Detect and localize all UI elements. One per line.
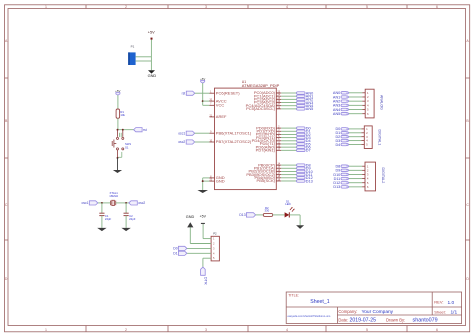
svg-text:LED: LED <box>285 202 290 206</box>
svg-text:P2: P2 <box>213 231 217 235</box>
svg-text:PD7(AIN1): PD7(AIN1) <box>256 148 276 153</box>
svg-text:VCC: VCC <box>216 103 225 108</box>
svg-text:D13: D13 <box>239 213 245 217</box>
svg-text:DIGITAL2: DIGITAL2 <box>381 168 385 184</box>
svg-text:AREF: AREF <box>216 114 227 119</box>
svg-text:AN5: AN5 <box>306 107 313 111</box>
svg-text:REV:: REV: <box>434 300 443 305</box>
svg-text:PC5(ADC5SCL): PC5(ADC5SCL) <box>246 106 276 111</box>
svg-text:2019-07-25: 2019-07-25 <box>350 318 377 324</box>
svg-text:DIGITAL1: DIGITAL1 <box>378 130 382 146</box>
svg-text:330: 330 <box>265 209 270 213</box>
svg-text:1/1: 1/1 <box>451 310 458 316</box>
svg-text:2: 2 <box>125 328 127 332</box>
svg-text:osc1: osc1 <box>178 131 185 135</box>
svg-text:P1: P1 <box>131 45 135 49</box>
svg-text:GND: GND <box>216 178 225 183</box>
svg-text:S1: S1 <box>125 146 129 150</box>
svg-text:D7: D7 <box>306 149 311 153</box>
svg-text:5: 5 <box>366 328 368 332</box>
svg-text:D1: D1 <box>173 252 177 256</box>
svg-text:PB6(XTAL1TOSC1): PB6(XTAL1TOSC1) <box>216 130 252 135</box>
svg-text:osc2: osc2 <box>138 201 145 205</box>
svg-text:D4: D4 <box>335 143 340 147</box>
svg-text:5: 5 <box>366 5 368 9</box>
svg-text:+5V: +5V <box>200 215 207 219</box>
svg-text:Company:: Company: <box>338 309 357 314</box>
svg-text:PB7(XTAL2TOSC2): PB7(XTAL2TOSC2) <box>216 139 252 144</box>
svg-text:1: 1 <box>45 328 47 332</box>
svg-text:Sheet_1: Sheet_1 <box>310 299 329 305</box>
svg-text:easyeda.com/shanto079/arduino-: easyeda.com/shanto079/arduino-uno <box>288 314 331 318</box>
svg-text:D13: D13 <box>306 179 313 183</box>
svg-text:osc2: osc2 <box>178 140 185 144</box>
svg-text:AN5: AN5 <box>333 112 340 116</box>
svg-text:DTR: DTR <box>203 277 207 285</box>
svg-text:22pF: 22pF <box>129 217 136 221</box>
svg-text:rst: rst <box>182 91 186 95</box>
svg-text:ATMEGA328P_PDIP: ATMEGA328P_PDIP <box>242 83 280 88</box>
svg-text:3: 3 <box>205 328 207 332</box>
svg-text:4: 4 <box>286 5 288 9</box>
svg-text:4: 4 <box>286 328 288 332</box>
svg-text:rst: rst <box>143 128 147 132</box>
svg-text:1.0: 1.0 <box>448 300 455 306</box>
svg-text:D13: D13 <box>333 185 340 189</box>
svg-text:1: 1 <box>45 5 47 9</box>
svg-text:PB5(SCK): PB5(SCK) <box>257 178 276 183</box>
svg-text:Sheet:: Sheet: <box>434 309 446 314</box>
svg-text:GND: GND <box>148 73 157 78</box>
svg-text:PC6(RESET): PC6(RESET) <box>216 90 240 95</box>
svg-text:10k: 10k <box>120 113 125 117</box>
svg-text:shanto079: shanto079 <box>413 318 438 324</box>
svg-text:TITLE:: TITLE: <box>288 294 299 298</box>
svg-text:Your Company: Your Company <box>362 309 394 315</box>
svg-text:6: 6 <box>436 5 438 9</box>
svg-text:2: 2 <box>125 5 127 9</box>
svg-text:ANALOG: ANALOG <box>379 95 383 110</box>
svg-text:GND: GND <box>186 215 195 219</box>
svg-text:3: 3 <box>205 5 207 9</box>
svg-text:+5V: +5V <box>148 31 155 35</box>
svg-text:Date:: Date: <box>338 317 348 322</box>
svg-text:D0: D0 <box>173 247 177 251</box>
svg-text:osc1: osc1 <box>82 201 89 205</box>
svg-text:22pF: 22pF <box>105 217 112 221</box>
svg-text:16MHz: 16MHz <box>109 194 118 198</box>
svg-text:6: 6 <box>436 328 438 332</box>
svg-text:Drawn By:: Drawn By: <box>386 317 405 322</box>
